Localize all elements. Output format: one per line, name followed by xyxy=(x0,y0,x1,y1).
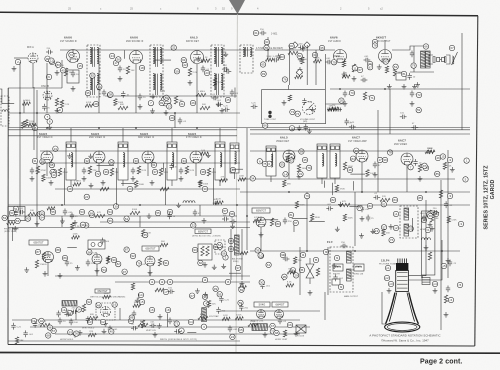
svg-text:93: 93 xyxy=(193,248,197,252)
wire xyxy=(138,293,140,299)
svg-text:97: 97 xyxy=(123,270,127,274)
svg-text:.001: .001 xyxy=(307,102,312,104)
svg-text:32: 32 xyxy=(192,224,196,228)
svg-text:78: 78 xyxy=(412,64,416,68)
node 30 xyxy=(113,204,118,209)
capacitor C80 xyxy=(58,318,62,325)
wire drop xyxy=(61,216,63,227)
node 22 xyxy=(408,226,413,231)
capacitor C24 xyxy=(212,96,219,100)
node 91 xyxy=(163,260,168,265)
node 69 xyxy=(239,287,244,292)
svg-text:61: 61 xyxy=(267,263,271,267)
speaker voice coil xyxy=(452,56,454,64)
svg-text:13: 13 xyxy=(168,105,172,109)
ratio detector V5 xyxy=(191,51,204,64)
svg-text:Page 2 cont.: Page 2 cont. xyxy=(420,359,462,366)
node b1 xyxy=(31,318,36,323)
svg-text:60: 60 xyxy=(298,54,302,58)
capacitor C64 xyxy=(364,58,371,62)
svg-text:.002: .002 xyxy=(339,278,344,280)
svg-text:57: 57 xyxy=(382,225,386,229)
node 74 xyxy=(295,111,300,116)
svg-text:HORIZ CENT: HORIZ CENT xyxy=(275,339,288,341)
capacitor xyxy=(219,296,223,303)
node 46 xyxy=(347,167,352,172)
svg-text:t1: t1 xyxy=(151,280,154,284)
svg-text:2ND SOUND IF: 2ND SOUND IF xyxy=(126,41,144,43)
node b5 xyxy=(238,327,243,332)
capacitor xyxy=(167,212,171,219)
capacitor C62 xyxy=(298,56,302,63)
svg-text:1 MEG: 1 MEG xyxy=(23,100,30,102)
svg-text:6AU6: 6AU6 xyxy=(130,36,138,40)
node 55 xyxy=(155,210,160,215)
node 67 xyxy=(189,293,194,298)
node 67 xyxy=(449,45,454,50)
capacitor C58 xyxy=(65,260,69,267)
svg-text:56K: 56K xyxy=(288,269,293,271)
node 36 xyxy=(74,331,79,336)
node 92 xyxy=(130,253,135,258)
resistor R91 xyxy=(430,214,433,222)
wire xyxy=(353,181,355,190)
node 37 xyxy=(152,169,157,174)
resistor R67 xyxy=(288,95,291,101)
wire xyxy=(187,332,196,334)
node v5 xyxy=(139,299,144,304)
svg-text:2.2K: 2.2K xyxy=(203,57,208,59)
svg-text:11: 11 xyxy=(353,66,356,70)
resistor R40 xyxy=(297,164,300,172)
node 56 xyxy=(221,251,226,256)
resistor xyxy=(215,201,223,204)
ground xyxy=(196,56,201,61)
svg-text:52: 52 xyxy=(394,65,398,69)
test point M xyxy=(292,42,298,48)
wire xyxy=(331,183,333,195)
wire CRT grid2 feed xyxy=(408,200,426,276)
horiz AFC V17 xyxy=(256,217,266,227)
vert blocking transformer xyxy=(62,301,77,307)
resistor xyxy=(253,219,261,222)
resistor R24 xyxy=(200,106,210,109)
svg-text:100K: 100K xyxy=(118,102,124,104)
node 70 xyxy=(349,90,354,95)
resistor R55 xyxy=(270,218,273,226)
node 80 xyxy=(56,62,61,67)
resistor xyxy=(202,59,210,62)
svg-text:80: 80 xyxy=(26,217,30,221)
svg-text:4.5 MC (FM & AM DET): 4.5 MC (FM & AM DET) xyxy=(256,47,283,50)
capacitor xyxy=(18,210,25,214)
svg-text:55: 55 xyxy=(144,233,148,237)
svg-text:76: 76 xyxy=(390,238,394,242)
resistor R58 xyxy=(428,210,431,218)
wire drop xyxy=(406,165,408,192)
node 20 xyxy=(339,98,344,103)
yoke plug xyxy=(422,278,430,285)
svg-text:.001: .001 xyxy=(68,212,73,214)
capacitor xyxy=(71,310,78,314)
resistor xyxy=(133,304,141,307)
resistor R12 xyxy=(64,68,67,76)
svg-text:80: 80 xyxy=(384,60,388,64)
ground xyxy=(263,332,268,337)
ground xyxy=(428,222,433,227)
node 90 xyxy=(45,56,50,61)
capacitor xyxy=(349,125,356,129)
node p2 xyxy=(384,275,389,280)
node 21 xyxy=(179,101,184,106)
svg-text:89: 89 xyxy=(63,256,67,260)
svg-text:FOCUS: FOCUS xyxy=(297,336,305,338)
schematic border left xyxy=(7,88,9,345)
svg-text:8.2K: 8.2K xyxy=(190,170,195,172)
svg-text:100K: 100K xyxy=(203,184,209,186)
svg-text:b5: b5 xyxy=(239,328,243,332)
svg-text:65: 65 xyxy=(429,214,433,218)
junction xyxy=(236,204,238,206)
node 18 xyxy=(139,65,144,70)
svg-text:14: 14 xyxy=(52,173,56,177)
IF transformer T11 xyxy=(266,146,276,182)
node r4 xyxy=(448,297,453,302)
node 6 xyxy=(267,161,272,166)
svg-text:78: 78 xyxy=(137,262,141,266)
wire tuner drop xyxy=(19,62,21,113)
node 6 xyxy=(257,159,262,164)
svg-text:.001: .001 xyxy=(65,310,70,312)
wire vertical drop xyxy=(461,33,463,130)
wire tuner drop 2 xyxy=(33,87,35,150)
center fold line xyxy=(236,14,237,352)
capacitor xyxy=(174,329,181,333)
svg-text:59: 59 xyxy=(417,108,421,112)
ground xyxy=(338,202,343,207)
svg-text:100K: 100K xyxy=(428,148,434,150)
capacitor xyxy=(225,69,232,73)
svg-text:1 MEG: 1 MEG xyxy=(198,91,205,93)
resistor xyxy=(103,295,111,298)
node b6 xyxy=(287,322,292,327)
svg-text:28: 28 xyxy=(68,187,72,191)
svg-text:6SN7GT: 6SN7GT xyxy=(256,209,267,213)
node 55 xyxy=(143,232,148,237)
wire xyxy=(292,217,308,219)
svg-text:p1: p1 xyxy=(386,266,390,270)
svg-text:99: 99 xyxy=(383,158,387,162)
speaker plug pins xyxy=(437,58,445,62)
svg-text:2.2K: 2.2K xyxy=(65,104,70,106)
ground xyxy=(259,232,264,237)
wire heater bus left xyxy=(8,127,250,129)
svg-text:14: 14 xyxy=(77,308,81,312)
schematic border bottom xyxy=(8,345,475,347)
horiz output tube plate xyxy=(306,258,314,284)
node 95 xyxy=(85,90,90,95)
junction xyxy=(61,204,63,206)
svg-text:20: 20 xyxy=(340,99,344,103)
svg-text:66: 66 xyxy=(264,124,268,128)
wire xyxy=(229,272,241,274)
wire det drop 3 xyxy=(315,50,317,85)
antenna input box xyxy=(1,96,9,126)
video detector V14 xyxy=(283,150,295,162)
ground xyxy=(298,67,303,72)
node f1 xyxy=(334,255,339,260)
wire IFT feed xyxy=(122,128,124,142)
junction xyxy=(425,191,427,193)
wire det drop xyxy=(288,45,290,85)
wire CRT anode feed xyxy=(408,240,442,280)
node 66 xyxy=(263,123,268,128)
node 40 xyxy=(289,43,294,48)
coil L3 xyxy=(183,201,195,203)
node 4 xyxy=(179,328,184,333)
wire main B+ bus xyxy=(8,204,470,206)
resistor R80 xyxy=(40,323,50,326)
node 81 xyxy=(288,212,293,217)
video IF amp V12 xyxy=(142,151,154,163)
capacitor C95 xyxy=(448,260,452,267)
svg-text:y2: y2 xyxy=(394,226,398,230)
junction xyxy=(246,215,248,217)
svg-text:r5: r5 xyxy=(459,283,462,287)
node 23 xyxy=(84,194,89,199)
svg-text:5-25: 5-25 xyxy=(224,299,229,301)
wire xyxy=(309,220,325,222)
node 82 xyxy=(289,158,294,163)
svg-text:99: 99 xyxy=(214,287,218,291)
node 99 xyxy=(181,57,186,62)
svg-text:79: 79 xyxy=(307,166,311,170)
wire vertical drop xyxy=(36,90,38,227)
junction xyxy=(46,127,48,129)
vert osc box xyxy=(96,303,115,320)
svg-text:5V4G: 5V4G xyxy=(259,303,266,307)
wire drop xyxy=(213,168,215,205)
capacitor xyxy=(150,324,157,328)
yoke vertical winding xyxy=(404,208,409,220)
ground xyxy=(433,288,438,293)
wire audio B+ xyxy=(330,88,470,90)
svg-text:.001: .001 xyxy=(150,322,155,324)
node 72 xyxy=(416,92,421,97)
svg-text:54: 54 xyxy=(102,268,106,272)
wire bias bus xyxy=(100,221,250,223)
svg-text:VIDEO DET: VIDEO DET xyxy=(276,141,290,143)
svg-text:38: 38 xyxy=(109,93,113,97)
ground xyxy=(138,104,143,109)
svg-text:43: 43 xyxy=(231,168,235,172)
node 13 xyxy=(50,169,55,174)
node 9 xyxy=(289,154,294,159)
node v1 xyxy=(61,307,66,312)
svg-text:6AC7: 6AC7 xyxy=(398,139,406,143)
svg-text:92: 92 xyxy=(87,300,91,304)
ground xyxy=(310,107,315,112)
node 27 xyxy=(107,92,112,97)
svg-text:VERT HOLD: VERT HOLD xyxy=(82,328,95,330)
resistor R41 xyxy=(343,162,346,170)
resistor R30 xyxy=(36,166,39,174)
wire vertical drop xyxy=(354,192,356,246)
svg-text:6AL5: 6AL5 xyxy=(190,36,198,40)
svg-text:19: 19 xyxy=(375,229,379,233)
svg-text:71: 71 xyxy=(175,322,179,326)
node 97 xyxy=(422,163,427,168)
svg-text:.002: .002 xyxy=(136,171,141,173)
wire xyxy=(67,246,77,248)
junction xyxy=(354,250,356,252)
svg-text:66: 66 xyxy=(424,45,428,49)
ground xyxy=(164,110,169,115)
ground xyxy=(352,76,357,81)
node 54 xyxy=(101,267,106,272)
svg-text:5-25: 5-25 xyxy=(17,326,22,328)
oscillator V2 xyxy=(43,91,52,100)
wire antenna feed xyxy=(0,89,14,104)
node 64 xyxy=(312,52,317,57)
resistor xyxy=(447,216,450,223)
ground xyxy=(377,64,382,69)
resistor R52 xyxy=(95,214,105,217)
node 34 xyxy=(250,176,255,181)
capacitor C71 xyxy=(132,311,136,318)
node v4 xyxy=(138,292,143,297)
resistor R43 xyxy=(425,150,435,153)
capacitor xyxy=(230,219,237,223)
ground xyxy=(147,213,152,218)
svg-text:6K6GT: 6K6GT xyxy=(376,36,386,40)
node 35 xyxy=(51,169,56,174)
svg-text:31: 31 xyxy=(299,172,303,176)
node f2 xyxy=(338,284,343,289)
resistor R35 xyxy=(110,168,113,176)
wire video bus xyxy=(240,191,470,193)
svg-text:330K: 330K xyxy=(104,293,110,295)
node 61 xyxy=(151,162,156,167)
resistor xyxy=(286,284,294,287)
wire vertical drop xyxy=(246,128,248,250)
node 80 xyxy=(383,59,388,64)
svg-text:p3: p3 xyxy=(389,282,393,286)
svg-text:14: 14 xyxy=(284,172,288,176)
resistor R26 xyxy=(118,106,128,109)
svg-text:p5: p5 xyxy=(442,264,446,268)
node 82 xyxy=(381,202,386,207)
resistor R66 xyxy=(363,92,366,100)
node 15 xyxy=(77,63,82,68)
svg-text:46: 46 xyxy=(348,168,352,172)
speaker field line xyxy=(452,52,458,65)
resistor R23 xyxy=(196,93,206,96)
svg-text:85: 85 xyxy=(436,172,440,176)
capacitor C82 xyxy=(168,318,172,325)
node 59 xyxy=(40,159,45,164)
resistor R82 xyxy=(138,323,148,326)
resistor xyxy=(114,99,117,106)
volume assembly box xyxy=(262,90,326,124)
node y2 xyxy=(393,225,398,230)
wire drop xyxy=(199,205,201,216)
svg-text:87: 87 xyxy=(125,248,129,252)
node 14 xyxy=(51,172,56,177)
resistor R69 xyxy=(342,61,345,67)
node 54 xyxy=(107,209,112,214)
svg-text:h1: h1 xyxy=(426,228,430,232)
node 33 xyxy=(133,158,138,163)
wire B+ feed xyxy=(8,135,237,137)
svg-text:97: 97 xyxy=(368,65,372,69)
capacitor xyxy=(86,316,90,323)
node 20 xyxy=(354,148,359,153)
node 90 xyxy=(116,57,121,62)
node 32 xyxy=(84,158,89,163)
svg-text:18: 18 xyxy=(140,66,144,70)
svg-text:29: 29 xyxy=(294,274,298,278)
capacitor xyxy=(239,304,243,311)
svg-text:470K: 470K xyxy=(314,57,320,59)
node 11 xyxy=(49,58,54,63)
ground xyxy=(332,263,337,268)
capacitor xyxy=(69,319,73,326)
node 43 xyxy=(230,167,235,172)
node 72 xyxy=(69,52,74,57)
video IF amp V13 xyxy=(190,151,202,163)
node 9 xyxy=(46,74,51,79)
wire volume feed xyxy=(287,85,289,90)
node p5 xyxy=(441,263,446,268)
svg-text:p2: p2 xyxy=(385,276,389,280)
node 3 xyxy=(223,255,228,260)
ground xyxy=(73,220,78,225)
IF transformer T8 xyxy=(167,142,177,186)
capacitor C25 xyxy=(230,90,234,97)
capacitor C96 xyxy=(446,286,450,293)
resistor xyxy=(283,180,286,187)
svg-text:VERT LIN: VERT LIN xyxy=(146,330,156,332)
ground xyxy=(75,265,80,270)
resistor R18 xyxy=(174,96,177,104)
svg-text:32: 32 xyxy=(172,46,176,50)
node 47 xyxy=(377,157,382,162)
resistor R32 xyxy=(137,166,140,174)
capacitor C65 xyxy=(343,91,347,98)
peaking coil L2 xyxy=(330,144,340,184)
node 56 xyxy=(108,218,113,223)
wire cathode xyxy=(98,163,100,176)
svg-text:47K: 47K xyxy=(221,177,226,179)
capacitor xyxy=(272,58,279,62)
resistor xyxy=(207,300,210,307)
svg-text:40: 40 xyxy=(290,44,294,48)
capacitor xyxy=(223,108,230,112)
ground xyxy=(151,94,156,99)
capacitor xyxy=(326,206,333,210)
node t2 xyxy=(159,279,164,284)
node 57 xyxy=(222,208,227,213)
node 80 xyxy=(275,221,280,226)
capacitor xyxy=(100,238,104,245)
resistor R70 xyxy=(82,304,85,312)
terminal strip xyxy=(327,108,342,112)
junction xyxy=(306,250,308,252)
svg-text:56: 56 xyxy=(222,252,226,256)
ground xyxy=(30,176,35,181)
svg-text:97: 97 xyxy=(423,164,427,168)
